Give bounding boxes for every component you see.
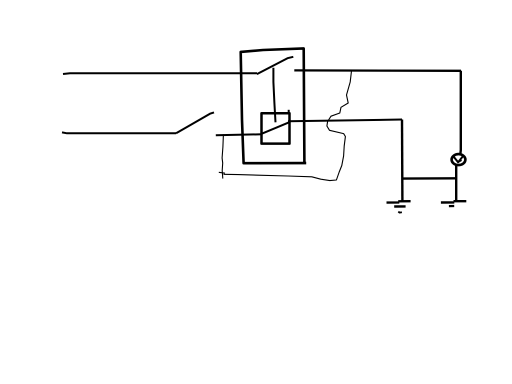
switch S2 (open blade on control line): [176, 112, 214, 133]
ground G1 bar 3 (tick): [398, 212, 402, 213]
coil diagonal element: [261, 122, 290, 134]
wire W8 (bottom connector between drops): [402, 177, 456, 180]
coil L1 (relay coil box): [262, 113, 290, 143]
ground G1 bar 1: [387, 201, 411, 202]
lamp DS1 filament X: [454, 157, 463, 163]
coil box overshoot stub: [288, 110, 290, 114]
switch arm S1 (relay contact blade, open): [257, 57, 293, 74]
ground G2 bar 2: [449, 205, 454, 207]
ground G1 bar 2: [394, 205, 405, 208]
lamp DS1 (circle): [452, 154, 466, 165]
wire W4 (left mid horizontal to switch S2): [62, 131, 176, 134]
wire W10 (lamp to ground G2 vertical): [455, 165, 457, 202]
wire W3 (armature link vertical from contact to coil): [273, 68, 275, 123]
relay box K1 (outer enclosure): [241, 48, 307, 163]
wire W2 (relay output to lamp, top horizontal): [294, 69, 461, 72]
freehand annotation curve (right loop): [224, 71, 352, 181]
wire W5 (control line into coil): [216, 133, 262, 136]
wire W9 (lamp feed vertical): [459, 71, 462, 154]
freehand annotation vertical (left pointer): [222, 134, 223, 178]
wire W1 (top-left horizontal input to relay common): [63, 72, 257, 75]
wire W7 (vertical drop to ground G1): [401, 120, 404, 202]
wire W6 (coil output to ground drop): [288, 120, 402, 122]
freehand tick mark on pointer: [219, 171, 225, 174]
ground G2 bar 1: [441, 201, 466, 202]
